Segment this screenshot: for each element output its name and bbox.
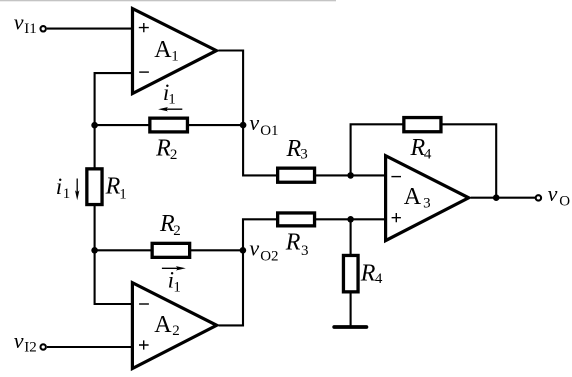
svg-text:v: v: [249, 235, 259, 260]
svg-text:3: 3: [300, 147, 308, 163]
svg-text:R: R: [360, 260, 376, 286]
svg-text:R: R: [286, 136, 302, 162]
svg-text:A: A: [404, 184, 422, 210]
svg-text:1: 1: [171, 49, 179, 65]
svg-text:2: 2: [172, 323, 180, 339]
svg-text:R: R: [285, 230, 301, 256]
svg-text:R: R: [155, 136, 171, 162]
svg-text:O: O: [559, 193, 570, 209]
svg-text:v: v: [14, 9, 24, 34]
svg-text:3: 3: [301, 243, 309, 259]
svg-text:I2: I2: [24, 340, 37, 356]
svg-text:4: 4: [375, 271, 383, 287]
svg-text:O1: O1: [260, 123, 278, 139]
svg-text:A: A: [154, 37, 172, 63]
svg-text:1: 1: [173, 280, 181, 296]
svg-text:2: 2: [170, 147, 178, 163]
svg-text:1: 1: [119, 186, 127, 202]
svg-text:v: v: [14, 328, 24, 353]
svg-text:I1: I1: [24, 21, 37, 37]
svg-text:A: A: [154, 312, 172, 338]
svg-text:4: 4: [424, 146, 432, 162]
svg-text:1: 1: [168, 92, 176, 108]
svg-text:R: R: [105, 173, 121, 199]
svg-text:1: 1: [63, 186, 71, 202]
svg-text:v: v: [548, 181, 558, 206]
svg-text:O2: O2: [260, 249, 278, 265]
svg-text:i: i: [56, 174, 62, 199]
svg-text:2: 2: [173, 223, 181, 239]
svg-text:v: v: [249, 110, 259, 135]
svg-text:3: 3: [423, 195, 431, 211]
